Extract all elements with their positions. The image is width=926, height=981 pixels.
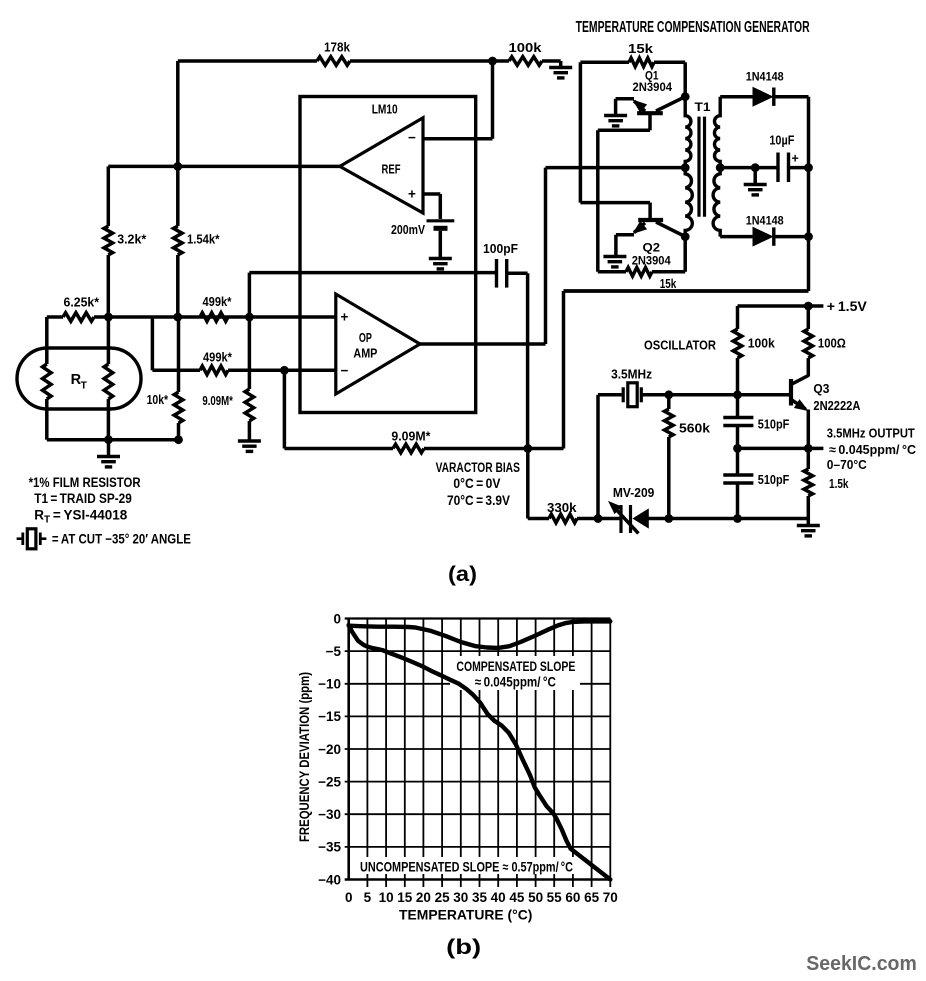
svg-text:330k: 330k <box>547 500 577 515</box>
svg-text:T: T <box>81 380 88 392</box>
svg-text:−: − <box>341 363 349 378</box>
svg-text:−25: −25 <box>318 774 341 789</box>
svg-text:65: 65 <box>584 890 600 905</box>
svg-text:50: 50 <box>528 890 543 905</box>
svg-text:178k: 178k <box>324 40 351 55</box>
svg-text:+: + <box>408 187 416 202</box>
svg-text:20: 20 <box>416 890 431 905</box>
svg-text:560k: 560k <box>679 421 711 436</box>
svg-text:0: 0 <box>345 890 353 905</box>
svg-text:15k: 15k <box>660 276 677 291</box>
svg-text:2N2222A: 2N2222A <box>813 399 860 413</box>
svg-text:≈ 0.045ppm/ °C: ≈ 0.045ppm/ °C <box>475 674 556 689</box>
svg-text:(b): (b) <box>446 936 481 959</box>
svg-text:1N4148: 1N4148 <box>746 70 784 84</box>
svg-text:40: 40 <box>491 890 506 905</box>
svg-text:25: 25 <box>435 890 451 905</box>
svg-text:−15: −15 <box>318 709 341 724</box>
svg-text:510pF: 510pF <box>758 417 790 432</box>
svg-text:10µF: 10µF <box>769 134 794 148</box>
svg-text:Q3: Q3 <box>813 382 829 396</box>
svg-text:TEMPERATURE COMPENSATION GENER: TEMPERATURE COMPENSATION GENERATOR <box>576 19 810 36</box>
svg-text:−5: −5 <box>326 644 342 659</box>
svg-text:100k: 100k <box>509 40 543 55</box>
svg-text:OP: OP <box>359 330 372 345</box>
svg-text:0°C = 0V: 0°C = 0V <box>453 476 500 491</box>
svg-text:70°C = 3.9V: 70°C = 3.9V <box>447 493 510 508</box>
svg-text:VARACTOR BIAS: VARACTOR BIAS <box>436 460 520 475</box>
svg-text:510pF: 510pF <box>758 472 790 487</box>
svg-text:−10: −10 <box>318 677 341 692</box>
svg-text:9.09M*: 9.09M* <box>202 393 233 408</box>
svg-text:+: + <box>341 310 349 325</box>
svg-text:499k*: 499k* <box>203 350 233 365</box>
svg-text:= AT CUT −35° 20′ ANGLE: = AT CUT −35° 20′ ANGLE <box>52 531 191 546</box>
svg-text:LM10: LM10 <box>372 102 398 117</box>
svg-text:100k: 100k <box>748 336 776 351</box>
svg-text:0: 0 <box>333 611 341 626</box>
svg-text:6.25k*: 6.25k* <box>64 295 100 310</box>
svg-text:15: 15 <box>397 890 413 905</box>
svg-text:*1% FILM RESISTOR: *1% FILM RESISTOR <box>29 475 141 490</box>
svg-text:UNCOMPENSATED SLOPE ≈ 0.57ppm/: UNCOMPENSATED SLOPE ≈ 0.57ppm/ °C <box>360 859 573 874</box>
svg-text:35: 35 <box>472 890 488 905</box>
svg-text:45: 45 <box>509 890 525 905</box>
svg-text:3.5MHz OUTPUT: 3.5MHz OUTPUT <box>827 426 915 441</box>
svg-text:3.2k*: 3.2k* <box>117 232 147 247</box>
svg-text:TEMPERATURE (°C): TEMPERATURE (°C) <box>399 907 532 923</box>
svg-text:3.5MHz: 3.5MHz <box>611 368 652 382</box>
svg-text:10k*: 10k* <box>147 392 169 407</box>
svg-text:COMPENSATED SLOPE: COMPENSATED SLOPE <box>456 659 575 674</box>
svg-text:30: 30 <box>453 890 468 905</box>
svg-text:MV-209: MV-209 <box>613 486 655 500</box>
svg-text:100Ω: 100Ω <box>818 336 846 351</box>
svg-text:15k: 15k <box>628 41 654 56</box>
svg-text:T1: T1 <box>695 100 711 114</box>
svg-text:SeekIC.com: SeekIC.com <box>806 952 917 975</box>
svg-text:10: 10 <box>379 890 394 905</box>
svg-text:−: − <box>408 130 416 145</box>
svg-text:2N3904: 2N3904 <box>632 254 671 268</box>
svg-text:−40: −40 <box>318 872 341 887</box>
svg-text:0–70°C: 0–70°C <box>827 457 868 472</box>
svg-text:9.09M*: 9.09M* <box>391 429 431 444</box>
svg-text:(a): (a) <box>448 563 477 586</box>
svg-text:OSCILLATOR: OSCILLATOR <box>644 338 717 353</box>
svg-text:AMP: AMP <box>353 346 377 361</box>
svg-text:100pF: 100pF <box>483 241 518 256</box>
svg-text:T1 = TRAID SP-29: T1 = TRAID SP-29 <box>34 491 132 506</box>
svg-text:1.54k*: 1.54k* <box>187 232 220 247</box>
svg-text:FREQUENCY DEVIATION (ppm): FREQUENCY DEVIATION (ppm) <box>296 672 312 842</box>
svg-text:1N4148: 1N4148 <box>746 214 784 228</box>
svg-text:70: 70 <box>603 890 618 905</box>
svg-text:Q2: Q2 <box>643 241 661 255</box>
svg-text:2N3904: 2N3904 <box>633 80 673 94</box>
svg-text:+: + <box>792 152 799 166</box>
svg-text:REF: REF <box>382 162 401 177</box>
svg-text:55: 55 <box>547 890 563 905</box>
svg-text:499k*: 499k* <box>203 294 233 309</box>
svg-text:60: 60 <box>565 890 580 905</box>
svg-text:5: 5 <box>364 890 372 905</box>
svg-text:≈ 0.045ppm/ °C: ≈ 0.045ppm/ °C <box>829 442 917 457</box>
svg-text:200mV: 200mV <box>391 222 425 237</box>
svg-text:−20: −20 <box>318 742 341 757</box>
svg-text:−30: −30 <box>318 807 341 822</box>
svg-text:+ 1.5V: + 1.5V <box>827 299 867 314</box>
svg-text:−35: −35 <box>318 840 341 855</box>
svg-text:1.5k: 1.5k <box>829 476 849 491</box>
